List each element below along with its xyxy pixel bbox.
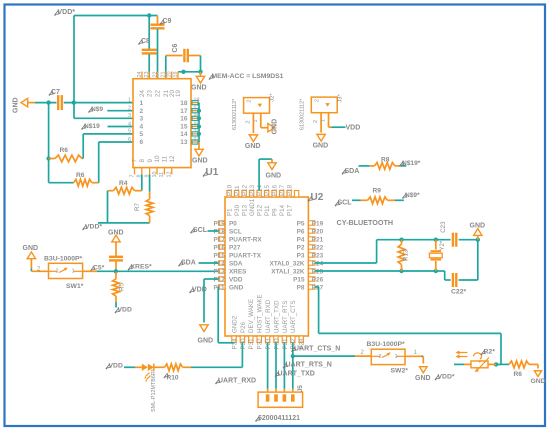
svg-text:3: 3	[140, 116, 144, 123]
svg-text:P9: P9	[272, 208, 279, 216]
svg-text:14: 14	[194, 129, 200, 135]
svg-text:R6: R6	[514, 371, 523, 378]
svg-text:P30: P30	[273, 338, 280, 350]
svg-text:UART_TXD: UART_TXD	[273, 300, 280, 333]
svg-text:6: 6	[128, 137, 131, 143]
svg-text:P23: P23	[312, 252, 324, 259]
svg-text:HOST_WAKE: HOST_WAKE	[257, 294, 264, 333]
svg-text:UART_RXD: UART_RXD	[218, 378, 256, 385]
svg-text:P6: P6	[297, 228, 305, 235]
svg-text:P27: P27	[312, 284, 324, 291]
svg-text:1: 1	[321, 119, 327, 122]
svg-text:P1: P1	[227, 208, 234, 216]
svg-text:GND: GND	[313, 143, 329, 150]
svg-text:J2*: J2*	[270, 93, 276, 102]
svg-text:4: 4	[140, 124, 144, 131]
svg-text:8: 8	[139, 159, 146, 163]
svg-text:C23: C23	[440, 221, 447, 233]
svg-text:11: 11	[162, 156, 169, 163]
svg-text:VDD: VDD	[109, 363, 123, 370]
svg-text:P31: P31	[282, 338, 289, 350]
svg-text:P30: P30	[234, 204, 241, 216]
svg-text:R9: R9	[373, 188, 382, 195]
svg-text:UART_CTS: UART_CTS	[290, 300, 297, 333]
svg-text:2: 2	[313, 120, 319, 123]
svg-text:UART_RTS_N: UART_RTS_N	[286, 362, 332, 369]
svg-text:R8: R8	[381, 156, 390, 163]
svg-text:VDD*: VDD*	[85, 224, 102, 231]
svg-text:C6: C6	[172, 43, 179, 52]
svg-text:1: 1	[128, 97, 131, 103]
svg-text:24: 24	[139, 90, 146, 97]
svg-text:PUART-RX: PUART-RX	[229, 236, 262, 243]
svg-text:SCL: SCL	[338, 200, 353, 207]
svg-text:P12: P12	[257, 204, 264, 216]
svg-text:P30: P30	[240, 338, 247, 350]
svg-text:R6: R6	[76, 172, 85, 179]
svg-text:R7: R7	[134, 203, 141, 211]
svg-text:P5: P5	[297, 220, 305, 227]
svg-text:62000411121: 62000411121	[258, 415, 300, 422]
svg-text:5: 5	[140, 131, 144, 138]
svg-text:P13: P13	[214, 268, 226, 275]
svg-text:SDA: SDA	[181, 260, 196, 267]
svg-text:22: 22	[155, 90, 162, 97]
svg-text:XTAL0_32K: XTAL0_32K	[269, 260, 304, 267]
svg-text:R6: R6	[60, 147, 69, 154]
svg-text:6: 6	[140, 139, 144, 146]
svg-text:R13: R13	[403, 249, 410, 261]
svg-text:P16: P16	[214, 244, 226, 251]
svg-text:13: 13	[180, 139, 188, 146]
svg-text:13: 13	[194, 137, 200, 143]
svg-text:P19: P19	[214, 220, 226, 227]
svg-text:P10: P10	[227, 184, 234, 196]
svg-text:P17: P17	[214, 236, 226, 243]
svg-text:15: 15	[180, 124, 188, 131]
svg-text:23: 23	[146, 90, 153, 97]
svg-text:14: 14	[180, 131, 188, 138]
svg-text:VDD: VDD	[118, 307, 132, 314]
svg-text:UART_TXD: UART_TXD	[278, 370, 315, 377]
svg-text:P32: P32	[257, 338, 264, 350]
svg-text:P22: P22	[312, 244, 324, 251]
svg-text:U1: U1	[206, 167, 219, 178]
svg-text:P12: P12	[214, 276, 226, 283]
svg-text:18: 18	[180, 100, 188, 107]
svg-text:2: 2	[56, 269, 59, 275]
svg-text:12: 12	[167, 171, 173, 177]
svg-text:C22*: C22*	[451, 289, 466, 296]
svg-text:P15: P15	[293, 276, 305, 283]
svg-text:GND: GND	[198, 338, 214, 345]
svg-text:P26: P26	[312, 276, 324, 283]
svg-text:R4: R4	[119, 180, 128, 187]
svg-text:N$9: N$9	[91, 106, 103, 113]
svg-text:VDD*: VDD*	[438, 374, 455, 381]
svg-text:GND: GND	[13, 97, 20, 113]
svg-text:P20: P20	[312, 228, 324, 235]
svg-text:P3: P3	[297, 252, 305, 259]
svg-text:P14: P14	[257, 184, 264, 196]
svg-text:16: 16	[194, 113, 200, 119]
svg-text:P13: P13	[249, 184, 256, 196]
svg-text:R5: R5	[119, 283, 126, 291]
svg-text:B3U-1000P*: B3U-1000P*	[44, 256, 83, 263]
svg-text:SCL: SCL	[193, 227, 208, 234]
svg-text:VDD*: VDD*	[58, 9, 76, 16]
svg-text:MEM-ACC = LSM9DS1: MEM-ACC = LSM9DS1	[212, 73, 284, 80]
svg-text:SW1*: SW1*	[66, 283, 84, 290]
svg-text:20: 20	[167, 71, 173, 77]
svg-text:4: 4	[128, 121, 131, 127]
svg-text:GND: GND	[192, 158, 208, 165]
svg-text:SDA: SDA	[229, 260, 243, 267]
svg-text:GND: GND	[191, 85, 207, 92]
svg-text:2: 2	[140, 108, 144, 115]
svg-text:P24: P24	[312, 260, 324, 267]
svg-text:B3U-1000P*: B3U-1000P*	[367, 341, 406, 348]
svg-text:2: 2	[247, 100, 253, 103]
svg-text:15: 15	[194, 121, 200, 127]
svg-text:7: 7	[132, 159, 139, 163]
svg-text:P15: P15	[214, 252, 226, 259]
svg-text:P13: P13	[242, 204, 249, 216]
svg-text:24: 24	[137, 71, 143, 77]
svg-text:19: 19	[173, 71, 179, 77]
svg-text:UART_RXD: UART_RXD	[265, 299, 272, 333]
svg-text:P4: P4	[297, 236, 305, 243]
svg-text:GND: GND	[245, 143, 261, 150]
svg-text:J5: J5	[297, 385, 304, 393]
svg-text:5: 5	[128, 129, 131, 135]
svg-text:P17: P17	[279, 184, 286, 196]
svg-text:SDA: SDA	[345, 168, 360, 175]
svg-text:SW2*: SW2*	[391, 368, 409, 375]
svg-text:17: 17	[180, 108, 188, 115]
svg-text:U2: U2	[311, 192, 324, 203]
svg-text:J3*: J3*	[338, 93, 344, 102]
svg-text:VDD: VDD	[229, 276, 243, 283]
svg-text:6130021112*: 6130021112*	[232, 98, 238, 130]
svg-text:GND: GND	[531, 378, 546, 385]
svg-text:P14: P14	[279, 204, 286, 216]
svg-text:GND: GND	[266, 173, 282, 180]
svg-text:GND: GND	[271, 119, 278, 135]
svg-text:17: 17	[194, 106, 200, 112]
svg-text:18: 18	[194, 97, 200, 103]
svg-text:SCL: SCL	[229, 228, 242, 235]
svg-text:VDD: VDD	[346, 125, 361, 132]
svg-text:GND1: GND1	[249, 198, 256, 216]
svg-text:P19: P19	[312, 220, 324, 227]
svg-text:10: 10	[152, 171, 158, 177]
svg-text:CY-BLUETOOTH: CY-BLUETOOTH	[337, 218, 394, 227]
svg-text:UART_RTS: UART_RTS	[282, 301, 289, 333]
svg-text:P16: P16	[272, 184, 279, 196]
svg-text:P11: P11	[214, 284, 225, 291]
svg-text:1: 1	[140, 100, 144, 107]
svg-text:7: 7	[129, 174, 135, 177]
svg-text:P31: P31	[248, 338, 255, 350]
svg-text:P0: P0	[229, 220, 237, 227]
svg-text:P21: P21	[312, 236, 324, 243]
svg-text:P18: P18	[214, 228, 226, 235]
svg-text:9: 9	[147, 159, 154, 163]
svg-text:11: 11	[159, 172, 165, 178]
svg-text:GND: GND	[415, 375, 431, 382]
svg-text:PUART-TX: PUART-TX	[229, 252, 262, 259]
svg-text:2: 2	[245, 120, 251, 123]
svg-text:P11: P11	[234, 185, 241, 196]
svg-text:XRES: XRES	[229, 268, 247, 275]
svg-text:23: 23	[144, 71, 150, 77]
svg-text:P11: P11	[264, 205, 271, 216]
svg-text:2: 2	[314, 99, 320, 102]
svg-text:P15: P15	[264, 184, 271, 196]
svg-text:P12: P12	[242, 184, 249, 196]
svg-text:19: 19	[175, 90, 182, 97]
svg-text:12: 12	[169, 155, 176, 162]
svg-text:UART_CTS_N: UART_CTS_N	[294, 345, 340, 352]
svg-text:GND2: GND2	[231, 315, 238, 333]
svg-text:P33: P33	[265, 338, 272, 350]
svg-text:1: 1	[72, 269, 75, 275]
svg-text:3: 3	[128, 113, 131, 119]
svg-text:N$9*: N$9*	[405, 192, 420, 199]
svg-text:16: 16	[180, 116, 188, 123]
svg-text:C7: C7	[51, 89, 60, 96]
svg-text:2: 2	[379, 354, 382, 360]
svg-text:P14: P14	[214, 260, 226, 267]
svg-text:1: 1	[253, 119, 259, 122]
svg-text:6130021112*: 6130021112*	[300, 98, 306, 130]
svg-text:P2: P2	[297, 244, 305, 251]
svg-text:P25: P25	[312, 268, 324, 275]
svg-text:DEV_WAKE: DEV_WAKE	[248, 299, 255, 333]
svg-text:P17: P17	[287, 204, 294, 216]
svg-text:XRES*: XRES*	[131, 264, 153, 271]
svg-text:1: 1	[395, 354, 398, 360]
svg-text:22: 22	[152, 71, 158, 77]
svg-text:Y2*: Y2*	[440, 240, 446, 250]
svg-text:2: 2	[128, 106, 131, 112]
svg-text:P26: P26	[240, 321, 247, 333]
svg-text:10: 10	[154, 155, 161, 162]
svg-text:N$19: N$19	[84, 123, 100, 130]
svg-text:N$19*: N$19*	[402, 160, 421, 167]
svg-text:P18: P18	[287, 184, 294, 196]
svg-text:P8: P8	[297, 284, 305, 291]
svg-text:GND: GND	[23, 245, 39, 252]
svg-text:SML-P12MTB6R*: SML-P12MTB6R*	[151, 368, 157, 412]
svg-text:P27: P27	[229, 244, 241, 251]
svg-text:XTALI_32K: XTALI_32K	[271, 268, 305, 275]
svg-text:P34: P34	[231, 338, 238, 350]
svg-text:GND: GND	[229, 284, 244, 291]
